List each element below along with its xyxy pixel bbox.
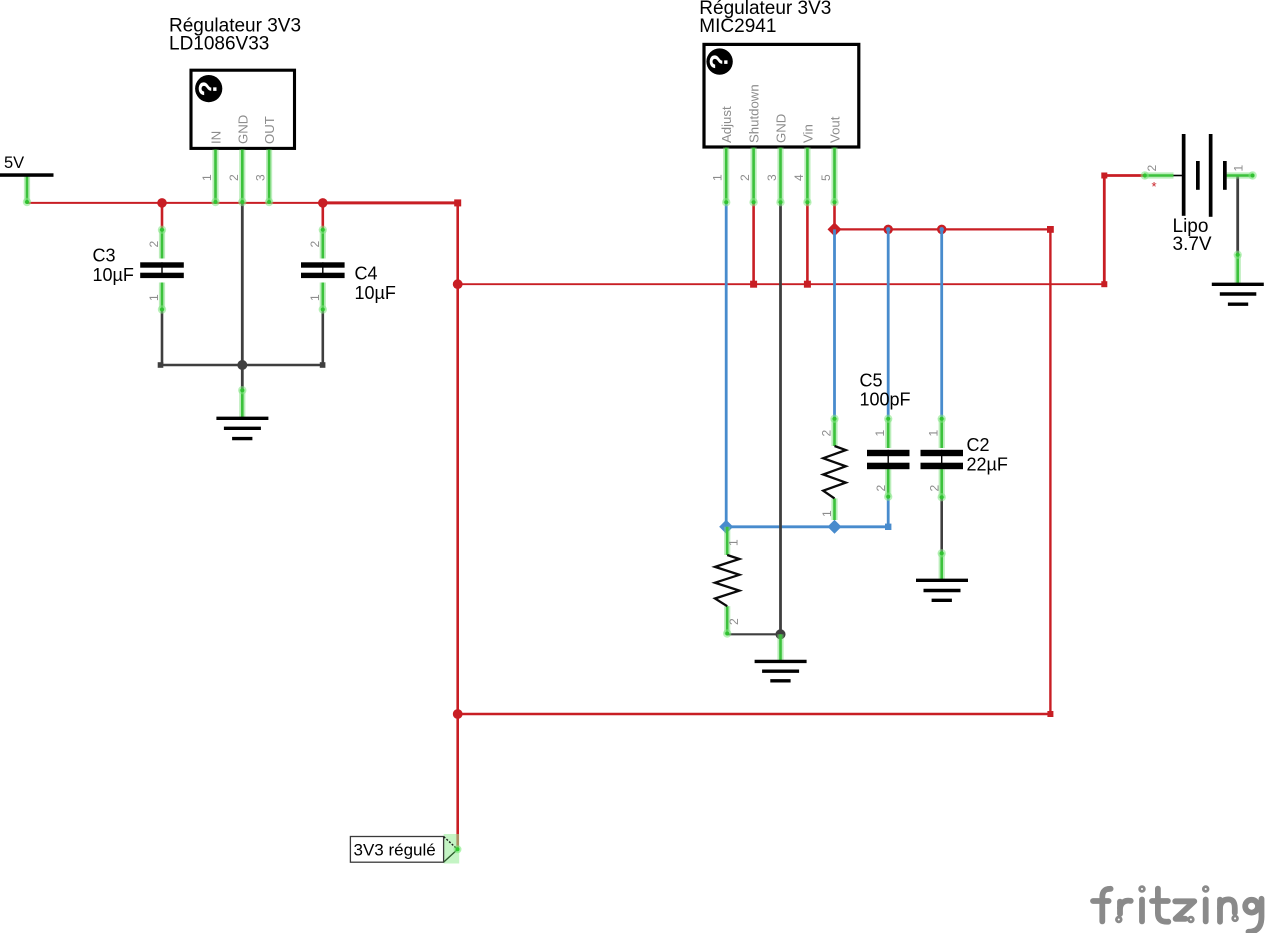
junction ring red/blue at C5 top (888.2,229.4) bbox=[885, 226, 892, 233]
C4 plates bbox=[301, 262, 345, 267]
R1 zigzag bbox=[823, 446, 846, 498]
wire: Vout drop bbox=[833, 203, 836, 229]
svg-text:10µF: 10µF bbox=[355, 283, 396, 303]
svg-text:C4: C4 bbox=[355, 264, 378, 284]
C5 pin 1 bbox=[885, 418, 891, 448]
svg-text:2: 2 bbox=[927, 485, 941, 492]
wire: C2 bottom to ground bbox=[940, 498, 943, 553]
wire: drop to C4 pin 2 bbox=[321, 203, 324, 229]
op-amp/regulator U1 LD1086V33 bbox=[169, 16, 301, 207]
svg-text:1: 1 bbox=[927, 430, 941, 437]
capacitor C2 bbox=[921, 415, 1008, 502]
wire: horizontal gnd link under C3/C4 bbox=[161, 364, 323, 367]
Lipo pin 2 (+) bbox=[1174, 175, 1183, 177]
wire: IC2 GND vertical bbox=[779, 203, 782, 634]
net flag green highlight bbox=[444, 834, 460, 864]
R2 pin 2 bbox=[724, 606, 730, 634]
junction diamond blue at (834.5,526.8) bbox=[828, 520, 842, 534]
svg-text:1: 1 bbox=[1231, 165, 1245, 172]
svg-text:100pF: 100pF bbox=[860, 389, 911, 409]
svg-text:5: 5 bbox=[819, 174, 833, 181]
ground symbol under battery bbox=[1212, 251, 1264, 305]
U1 mystery-part logo bbox=[195, 75, 222, 102]
ground pin bbox=[777, 634, 783, 661]
C4 pin 1 bbox=[320, 283, 326, 311]
C3 plates bbox=[140, 262, 184, 267]
U2 pin 5 Vout bbox=[831, 148, 837, 204]
wire: C3 lower vertical bbox=[161, 310, 164, 365]
svg-text:1: 1 bbox=[200, 174, 214, 181]
wire: blue horizontal bus y=526.8 bbox=[726, 525, 888, 528]
svg-text:2: 2 bbox=[820, 430, 834, 437]
svg-text:5V: 5V bbox=[4, 154, 24, 172]
U1 pin 2 GND bbox=[239, 150, 245, 203]
Lipo cell plates bbox=[1182, 134, 1186, 216]
node: blue square end at (888.2,526.8) bbox=[885, 524, 891, 530]
svg-text:OUT: OUT bbox=[262, 116, 277, 144]
R2 zigzag bbox=[715, 555, 739, 606]
svg-text:2: 2 bbox=[308, 241, 322, 248]
svg-text:1: 1 bbox=[873, 430, 887, 437]
svg-text:*: * bbox=[1152, 179, 1157, 194]
wire: battery branch vertical x=1104.3 bbox=[1103, 176, 1106, 285]
node: corner square at (457.7,203) bbox=[454, 199, 461, 206]
svg-text:MIC2941: MIC2941 bbox=[699, 16, 776, 37]
wire: Adjust vertical blue bbox=[725, 203, 728, 527]
U2 pin 1 Adjust bbox=[723, 148, 729, 204]
junction dot at (457.7,714) bbox=[453, 709, 463, 719]
5V flag bar bbox=[0, 173, 54, 177]
wire: blue from Vout node to R1 bbox=[833, 229, 836, 418]
wire: C4 lower vertical bbox=[321, 310, 324, 365]
svg-text:Vout: Vout bbox=[828, 116, 843, 143]
ground symbol under U1 bbox=[216, 386, 268, 439]
wire: blue C5 pin2 to bus bbox=[887, 498, 890, 527]
wire: battery branch horizontal to Lipo pin 2 bbox=[1104, 174, 1144, 177]
capacitor C3 bbox=[93, 226, 184, 314]
U1 pin 1 IN bbox=[212, 150, 218, 203]
fritzing watermark logo bbox=[1093, 887, 1262, 932]
wire: horizontal rail y=284 bbox=[458, 283, 1105, 285]
svg-text:C3: C3 bbox=[93, 246, 116, 266]
ground pin bbox=[939, 553, 945, 581]
svg-text:4: 4 bbox=[792, 174, 806, 181]
svg-text:3: 3 bbox=[765, 174, 779, 181]
svg-text:2: 2 bbox=[727, 618, 741, 625]
wire: bottom rail y=714 bbox=[458, 713, 1051, 716]
node: square end at (1050.4,229.4) bbox=[1047, 226, 1054, 233]
junction dot at OUT/C4 node bbox=[318, 198, 328, 208]
svg-text:GND: GND bbox=[235, 115, 250, 144]
svg-text:Vin: Vin bbox=[800, 124, 815, 143]
capacitor C4 bbox=[301, 226, 396, 314]
junction dot black under regulator 1 (242.3,365) bbox=[237, 360, 247, 370]
junction diamond blue at (726.2,526.8) bbox=[719, 520, 733, 534]
node: corner square at (1104.3,284.2) bbox=[1101, 281, 1107, 287]
ground symbol under C2 bbox=[916, 549, 968, 600]
node: square end at (160.5,365) bbox=[158, 362, 164, 368]
wire: Shutdown drop bbox=[752, 203, 755, 284]
C2 pin 2 bbox=[939, 469, 945, 498]
C3 pin 2 bbox=[159, 229, 165, 259]
C5 pin 2 bbox=[885, 469, 891, 497]
junction dot black at R2/GND node (780.5,634.3) bbox=[776, 629, 786, 639]
wire: vertical x=457.7 from rail to net flag bbox=[456, 203, 459, 850]
junction diamond at Vout node (834.5,229.4) bbox=[828, 222, 842, 236]
C4 pin 2 bbox=[320, 229, 326, 259]
ground pin bbox=[239, 389, 245, 418]
node: square end at (322.6,365) bbox=[320, 362, 326, 368]
wire: Lipo minus vertical bbox=[1236, 176, 1239, 255]
U2 pin 2 Shutdown bbox=[750, 148, 756, 204]
Lipo pin 1 (-) bbox=[1227, 172, 1254, 178]
node: corner square at (1104.3,175.5) bbox=[1101, 173, 1107, 179]
ground pin bbox=[1235, 254, 1241, 284]
svg-text:10µF: 10µF bbox=[93, 265, 134, 285]
svg-text:1: 1 bbox=[820, 510, 834, 517]
junction dot at 5V/C3 node bbox=[157, 198, 167, 208]
junction dot at (457.7,284) bbox=[453, 279, 463, 289]
svg-text:2: 2 bbox=[147, 241, 161, 248]
U1 pin 3 OUT bbox=[266, 150, 272, 203]
R2 pin 1 bbox=[724, 527, 730, 555]
svg-text:3V3 régulé: 3V3 régulé bbox=[354, 840, 436, 859]
svg-text:?: ? bbox=[195, 81, 223, 96]
C2 pin 1 bbox=[939, 418, 945, 448]
node: corner square at (1050.4,714) bbox=[1047, 711, 1053, 717]
net flag pin end bbox=[454, 845, 462, 853]
svg-text:GND: GND bbox=[774, 114, 789, 143]
wire: 5V rail y=203 left segment bbox=[27, 202, 323, 204]
U2 pin 3 GND bbox=[777, 148, 783, 204]
node: Vin square at (807.4,284) bbox=[804, 281, 811, 288]
power flag 5V bbox=[0, 154, 54, 206]
wire: drop to C3 pin 2 bbox=[161, 203, 164, 229]
svg-text:LD1086V33: LD1086V33 bbox=[169, 34, 269, 55]
svg-text:Shutdown: Shutdown bbox=[747, 84, 762, 143]
resistor R2 (adjust divider bottom) bbox=[715, 527, 741, 638]
C3 pin 1 bbox=[159, 283, 165, 311]
wire: blue down to C5 pin 1 bbox=[887, 229, 890, 418]
R1 pin 2 bbox=[831, 418, 837, 446]
battery Lipo 3.7V bbox=[1141, 134, 1257, 255]
net flag arrow upper edge (dotted) bbox=[444, 837, 458, 850]
wire: IC1 GND vertical bbox=[241, 203, 244, 389]
svg-text:C5: C5 bbox=[860, 371, 883, 391]
wire: blue down to C2 pin 1 bbox=[940, 229, 943, 418]
svg-text:Adjust: Adjust bbox=[719, 106, 734, 143]
svg-text:2: 2 bbox=[1145, 165, 1159, 172]
svg-text:?: ? bbox=[706, 54, 734, 69]
node: Shutdown square at (753.6,284) bbox=[750, 281, 757, 288]
svg-text:3.7V: 3.7V bbox=[1173, 234, 1212, 255]
ground symbol under U2 bbox=[755, 634, 807, 681]
C5 plates bbox=[867, 450, 910, 456]
C2 plates bbox=[921, 450, 964, 456]
U1 body bbox=[191, 70, 295, 148]
svg-text:1: 1 bbox=[711, 174, 725, 181]
svg-text:2: 2 bbox=[227, 174, 241, 181]
wire: R2 to gnd node horizontal bbox=[727, 633, 780, 635]
svg-text:IN: IN bbox=[209, 131, 224, 144]
U2 pin 4 Vin bbox=[804, 148, 810, 204]
svg-text:1: 1 bbox=[726, 539, 740, 546]
net flag arrow lower edge bbox=[444, 850, 458, 863]
net label 3V3 régulé bbox=[350, 834, 461, 864]
R1 pin 1 bbox=[831, 498, 837, 520]
svg-text:1: 1 bbox=[308, 294, 322, 301]
wire: 5V rail y=203 right segment bbox=[323, 201, 458, 204]
pin of 5V flag bbox=[24, 177, 30, 203]
U2 body bbox=[704, 44, 859, 147]
wire: Vout horizontal y=229.4 bbox=[835, 228, 1051, 230]
junction ring red/blue at C2 top (941.7,229.4) bbox=[938, 226, 945, 233]
svg-text:C2: C2 bbox=[967, 435, 990, 455]
svg-text:22µF: 22µF bbox=[967, 454, 1008, 474]
svg-text:1: 1 bbox=[147, 294, 161, 301]
net flag box bbox=[350, 837, 443, 863]
wire: Vin drop bbox=[806, 203, 809, 284]
svg-text:2: 2 bbox=[738, 174, 752, 181]
resistor R1 (adjust divider top) bbox=[820, 415, 846, 520]
wire: vertical x=1050.4 bbox=[1049, 229, 1051, 714]
op-amp/regulator U2 MIC2941 bbox=[699, 0, 859, 206]
svg-text:3: 3 bbox=[254, 174, 268, 181]
svg-text:2: 2 bbox=[874, 485, 888, 492]
capacitor C5 bbox=[860, 371, 911, 501]
U2 mystery-part logo bbox=[706, 48, 732, 74]
